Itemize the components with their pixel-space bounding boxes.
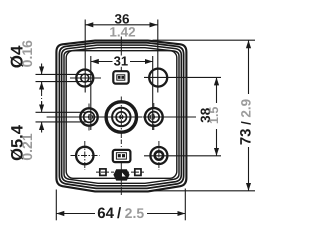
- dim 73: extension top: [153, 39, 256, 41]
- dim D4: arrows: [41, 64, 43, 75]
- dim 73: dimension line with arrows: [248, 40, 250, 191]
- dim 64: extension left: [55, 190, 57, 221]
- slot bottom-center inner: [116, 153, 126, 159]
- dim 73: extension bottom: [149, 190, 255, 192]
- body outline contour C4: [64, 48, 179, 184]
- dim D4: extension lines: [36, 73, 93, 75]
- svg-text:1.5: 1.5: [207, 107, 221, 124]
- dim D5.4: extension lines: [36, 111, 87, 113]
- hole center ring outer: [106, 102, 136, 132]
- body outline contour C2: [59, 43, 183, 189]
- dim 31: dimension line with arrows: [91, 61, 153, 63]
- hole top-left outer: [76, 70, 93, 87]
- dim 36: extension line right: [157, 20, 159, 93]
- hole bottom-right crosshair: [158, 141, 160, 170]
- hole mid-left tiny arc: [88, 115, 92, 119]
- hole center dot: [119, 115, 124, 120]
- dim D5.4: arrows: [41, 102, 43, 113]
- hole mid-right crosshair: [153, 103, 155, 131]
- hole mid-left crosshair: [88, 104, 90, 131]
- hole bottom-right outer: [150, 147, 167, 164]
- body outline contour C3: [62, 45, 182, 186]
- dim 38: extension bottom: [144, 155, 221, 157]
- body outline contour C1 (outermost): [56, 41, 186, 192]
- square bottom-left: [100, 169, 106, 176]
- square bottom-right: [135, 169, 141, 176]
- hole mid-right outer: [145, 108, 163, 126]
- slot top-center pins: [118, 76, 121, 79]
- slot top-center inner: [117, 75, 125, 80]
- svg-text:73 / 2.9: 73 / 2.9: [237, 99, 254, 145]
- hole bottom-right inner: [155, 151, 163, 159]
- hole center ring inner: [116, 112, 126, 122]
- dim 64: extension right: [184, 189, 186, 221]
- dim 31: extension line left: [90, 56, 92, 130]
- hole mid-right tiny arc: [150, 115, 154, 119]
- body inner recess contour C5: [66, 51, 177, 179]
- hole top-right: [149, 69, 167, 87]
- dim 36: extension line left: [84, 20, 86, 93]
- dim 38: dimension line with arrows: [216, 77, 218, 155]
- hole top-left crosshair: [70, 77, 101, 79]
- hole bottom-left: [76, 147, 93, 164]
- svg-text:64/2.5: 64/2.5: [97, 205, 144, 222]
- svg-text:1.42: 1.42: [109, 24, 135, 39]
- hole center ring middle: [112, 108, 130, 126]
- dash-dot line through squares: [96, 171, 146, 173]
- hexagon locator (filled): [113, 169, 129, 180]
- centerline vertical bottom: [120, 140, 122, 150]
- dim 38: extension top: [144, 76, 221, 78]
- hole bottom-left crosshair: [84, 141, 86, 170]
- centerline vertical top: [120, 37, 122, 56]
- hole mid-right inner: [148, 112, 159, 123]
- dim 64: dimension line with arrows: [56, 213, 185, 215]
- slot top-center outer: [113, 71, 128, 83]
- hexagon white notch: [122, 173, 126, 177]
- hole top-left inner: [81, 74, 89, 82]
- dim 31: extension line right: [152, 56, 154, 130]
- svg-text:0.16: 0.16: [19, 40, 35, 67]
- svg-text:31: 31: [114, 53, 128, 68]
- slot bottom-center outer: [113, 150, 131, 162]
- hole mid-left inner: [84, 112, 95, 123]
- dim 36: dimension line with arrows: [85, 24, 157, 26]
- slot bottom-center pins: [118, 154, 121, 157]
- hole center crosshair: [120, 97, 122, 141]
- hole mid-left outer: [80, 108, 97, 125]
- svg-text:0.21: 0.21: [19, 133, 35, 160]
